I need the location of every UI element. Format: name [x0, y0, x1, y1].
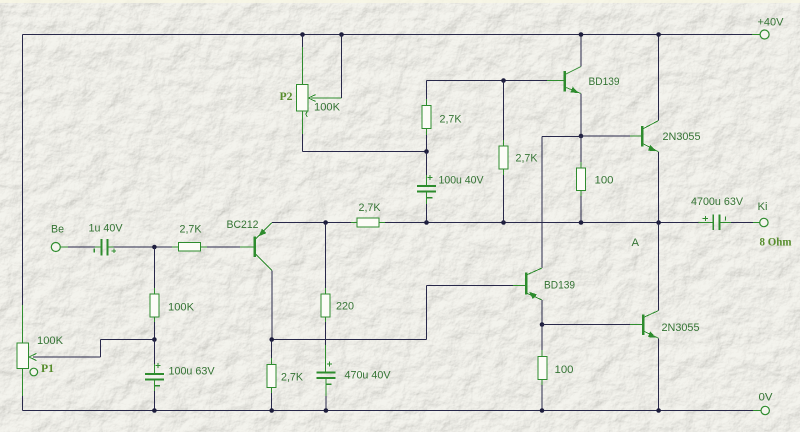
terminal 0V [761, 406, 769, 414]
wire C 1u to node In [109, 246, 114, 248]
wire C100u63 to 0V [153, 379, 155, 391]
wire node to C 100u 40V [426, 152, 428, 176]
node junction top-302 [300, 32, 305, 37]
wire Q4 base [427, 285, 514, 287]
wire mid rail left [272, 222, 351, 224]
node junction mid-326 [323, 220, 328, 225]
wire node324 to Q5 base [542, 324, 630, 326]
wire Q3 emitter to node A [658, 152, 660, 223]
svg-text:2,7K: 2,7K [359, 202, 382, 214]
wire P2 wiper to rail [341, 35, 343, 99]
svg-text:4700u 63V: 4700u 63V [691, 196, 744, 208]
resistor R 2,7K col503 [503, 140, 505, 146]
transistor Q5 collector [645, 311, 659, 318]
node junction 0V-154 [152, 408, 157, 413]
svg-text:Be: Be [51, 224, 64, 236]
node junction 503-80 [501, 78, 506, 83]
capacitor C 100u 63V [145, 373, 164, 375]
terminal Ki [760, 218, 768, 226]
wire C 100u 40V to mid rail [426, 191, 428, 204]
potentiometer P2 100K [297, 85, 309, 112]
resistor R 2,7K lower [271, 340, 273, 359]
terminal P1 bottom [30, 368, 38, 376]
svg-text:100u 63V: 100u 63V [169, 365, 216, 377]
resistor R 2,7K mid [351, 222, 357, 224]
wire node339 to riser [272, 339, 427, 341]
node junction top-658 [656, 32, 661, 37]
svg-text:Ki: Ki [758, 201, 768, 213]
svg-text:100: 100 [595, 175, 614, 187]
wire node136 to Q4 collector [542, 136, 581, 138]
wire In node down [153, 247, 155, 288]
transistor Q1 emitter [256, 223, 272, 239]
svg-text:100: 100 [555, 364, 574, 376]
transistor Q2 BD139 base bar [564, 71, 566, 92]
resistor R 100K [153, 288, 155, 294]
transistor Q5 2N3055 base bar [642, 315, 644, 336]
svg-text:2N3055: 2N3055 [663, 131, 701, 143]
capacitor C 470u 40V [316, 372, 335, 374]
capacitor 1u 40V [100, 239, 102, 255]
wire node339 to C100u63 [153, 340, 155, 365]
svg-text:BD139: BD139 [544, 280, 575, 292]
transistor Q3 collector [644, 121, 659, 129]
svg-text:470u 40V: 470u 40V [345, 369, 392, 381]
node junction 542-324 [540, 322, 545, 327]
svg-text:100K: 100K [314, 102, 341, 114]
wire rail to P2 [302, 35, 304, 48]
wire R bottom to node427 [426, 135, 428, 152]
svg-text:BD139: BD139 [589, 76, 620, 88]
svg-text:100K: 100K [168, 301, 195, 313]
transistor Q1 collector [256, 255, 272, 271]
wire 503 column lower [503, 175, 505, 223]
node junction 0V-542 [540, 408, 545, 413]
transistor Q3 2N3055 base bar [641, 126, 643, 147]
svg-text:BC212: BC212 [227, 219, 259, 231]
wire node427 to Q2 base [427, 80, 548, 82]
wire feedback riser [426, 286, 428, 340]
wire Q5 emitter to 0V [658, 338, 660, 410]
svg-text:2,7K: 2,7K [281, 371, 304, 383]
wire +40V rail [23, 34, 753, 36]
resistor R 100 bottom [541, 325, 543, 351]
transistor Q2 collector [566, 67, 581, 75]
terminal +40V [760, 30, 769, 39]
potentiometer P1 100K [17, 343, 29, 369]
node junction 0V-658 [656, 408, 661, 413]
wire Q1 collector down [271, 271, 273, 340]
wire node427 top corner [426, 81, 428, 100]
svg-text:2,7K: 2,7K [180, 224, 203, 236]
transistor Q4 emitter [528, 294, 543, 301]
wire rail to 0V terminal [753, 410, 761, 412]
wire rail to +40V terminal [752, 34, 760, 36]
transistor Q1 BC212 base bar [254, 237, 256, 258]
transistor Q2 emitter [566, 88, 581, 94]
resistor R 220 [325, 288, 327, 294]
transistor Q5 emitter [645, 332, 659, 339]
svg-text:P2: P2 [280, 89, 293, 103]
wire 0V rail [23, 410, 754, 412]
resistor R 100 top [580, 136, 582, 162]
wire P1 bottom to 0V rail [22, 369, 24, 397]
svg-text:1u 40V: 1u 40V [89, 223, 124, 235]
svg-text:8 Ohm: 8 Ohm [760, 235, 792, 249]
node junction 427-151 [424, 149, 429, 154]
svg-text:2,7K: 2,7K [440, 114, 463, 126]
capacitor C 4700u 63V [698, 222, 703, 224]
capacitor C 100u 40V [417, 185, 436, 187]
wire Q4 emitter to node [541, 300, 543, 325]
svg-text:0V: 0V [759, 392, 774, 404]
wire P2 bottom [302, 111, 304, 134]
transistor Q4 collector [528, 268, 543, 275]
transistor Q4 BD139 base bar [525, 273, 527, 295]
wire C470u to 0V [325, 378, 327, 396]
node junction top-341 [339, 32, 344, 37]
node junction top-581 [579, 32, 584, 37]
wire 503 column upper [503, 81, 505, 141]
svg-text:+40V: +40V [758, 16, 785, 28]
svg-text:2,7K: 2,7K [516, 153, 539, 165]
node A junction [656, 220, 661, 225]
wire R100K to node339 [153, 322, 155, 340]
wire mid rail right [385, 222, 698, 224]
node junction 272-339 [269, 337, 274, 342]
node junction 0V-272 [269, 408, 274, 413]
wire P1 wiper [33, 356, 101, 358]
wire R220 to C470u [325, 322, 327, 345]
node junction mid-581 [579, 220, 584, 225]
resistor R 2,7K col427 [426, 99, 428, 106]
wire R 2,7K to Q1 base [207, 246, 240, 248]
wire Q2 emitter to node136 [580, 94, 582, 137]
svg-text:220: 220 [336, 300, 354, 312]
node junction 0V-326 [324, 408, 329, 413]
terminal Be [51, 243, 60, 252]
svg-text:100K: 100K [37, 335, 64, 347]
node junction 581-136 [579, 134, 584, 139]
wire node136 to Q3 base [581, 135, 630, 137]
node junction mid-427 [424, 220, 429, 225]
node junction mid-503 [501, 220, 506, 225]
node junction 154-339 [152, 337, 157, 342]
wire left rail [22, 35, 24, 306]
svg-text:A: A [632, 237, 640, 249]
svg-text:2N3055: 2N3055 [662, 322, 700, 334]
wire mid node down 326 [325, 223, 327, 289]
node In junction [152, 245, 157, 250]
resistor R 2,7K input [172, 246, 179, 248]
transistor Q3 emitter [644, 144, 659, 152]
svg-text:100u 40V: 100u 40V [439, 175, 485, 187]
wire Be to C 1u [60, 246, 68, 248]
svg-text:P1: P1 [41, 361, 54, 375]
wire C4700u to Ki [721, 222, 732, 224]
